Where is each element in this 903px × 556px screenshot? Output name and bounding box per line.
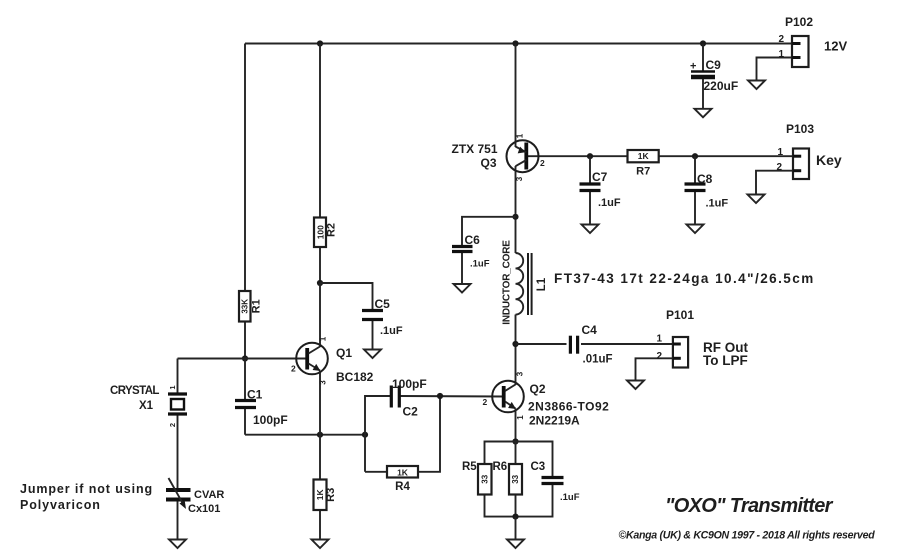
svg-text:P102: P102 — [785, 15, 813, 29]
wire: R2 top lead — [319, 44, 321, 218]
ground below C5 — [364, 350, 381, 359]
svg-text:1K: 1K — [638, 151, 650, 161]
svg-text:C6: C6 — [465, 233, 481, 247]
svg-text:2N2219A: 2N2219A — [529, 414, 580, 428]
capacitor C4 — [570, 336, 577, 354]
wire: R7 to P103 pin1 — [659, 155, 793, 157]
svg-text:2: 2 — [777, 162, 783, 173]
svg-text:1: 1 — [516, 415, 525, 420]
transistor Q3 (ZTX751 PNP) — [507, 140, 539, 172]
svg-text:.1uF: .1uF — [560, 492, 580, 503]
svg-text:ZTX 751: ZTX 751 — [452, 142, 498, 156]
wire: R5 R6 C3 top bus — [485, 442, 553, 478]
svg-text:1: 1 — [779, 49, 785, 60]
svg-text:3: 3 — [319, 380, 328, 385]
svg-text:1K: 1K — [315, 489, 325, 501]
wire: C9 to ground — [702, 77, 704, 109]
svg-text:33K: 33K — [241, 299, 250, 314]
resistor R6 — [509, 464, 522, 495]
crystal X1 — [168, 394, 187, 414]
wire: C8 top lead — [694, 156, 696, 184]
svg-text:Key: Key — [816, 152, 842, 168]
wire: C1 bottom lead — [244, 408, 246, 435]
svg-text:Q3: Q3 — [481, 156, 497, 170]
wire: crystal to CVAR — [177, 414, 179, 490]
svg-text:FT37-43 17t 22-24ga 10.4"/26.5: FT37-43 17t 22-24ga 10.4"/26.5cm — [554, 271, 815, 286]
svg-text:2: 2 — [168, 423, 177, 427]
connector P103 — [793, 149, 809, 180]
svg-text:C2: C2 — [403, 405, 419, 419]
wire: Q1 emitter lead — [319, 371, 321, 435]
wire: R4 left lead — [365, 471, 387, 473]
svg-text:2: 2 — [483, 397, 488, 407]
wire: P101 pin2 to ground — [636, 358, 674, 380]
wire: bus to ground — [515, 517, 517, 540]
wire: C5 branch — [320, 283, 373, 311]
svg-text:12V: 12V — [824, 39, 847, 54]
wire: C2 right lead / Q2 base — [401, 395, 504, 398]
svg-text:33: 33 — [511, 474, 520, 483]
svg-text:2: 2 — [657, 351, 663, 362]
wire: Q2 emitter lead — [515, 409, 517, 442]
svg-text:X1: X1 — [139, 400, 154, 412]
ground below P102 pin1 — [748, 81, 765, 90]
capacitor C5 — [362, 311, 383, 320]
inductor L1 — [516, 253, 532, 315]
junction: Q3 collector / C6 — [512, 214, 518, 220]
wire: Q3 base to R7 — [526, 155, 627, 157]
ground below R3 — [312, 540, 329, 549]
svg-text:Jumper if not using: Jumper if not using — [20, 482, 153, 496]
capacitor CVAR (variable) — [166, 478, 191, 509]
svg-text:To LPF: To LPF — [703, 353, 748, 368]
svg-text:P103: P103 — [786, 122, 814, 136]
svg-text:2: 2 — [291, 364, 296, 374]
svg-text:L1: L1 — [536, 277, 548, 291]
svg-text:100: 100 — [316, 225, 326, 239]
svg-text:P101: P101 — [666, 308, 694, 322]
ground below C9 — [695, 109, 712, 118]
wire: R3 top lead — [319, 435, 321, 480]
capacitor C6 — [452, 247, 473, 252]
svg-text:CVAR: CVAR — [194, 489, 224, 501]
wire: C4 right lead to P101 — [581, 343, 673, 345]
junction: emitter bus — [512, 438, 518, 444]
wire: CVAR to ground — [177, 500, 179, 540]
resistor R2 — [314, 218, 326, 248]
svg-text:R1: R1 — [251, 299, 263, 313]
svg-text:1: 1 — [657, 334, 663, 345]
svg-text:100pF: 100pF — [253, 413, 288, 427]
wire: bottom feedback wire — [245, 434, 365, 436]
svg-text:100pF: 100pF — [392, 377, 427, 391]
svg-text:©Kanga (UK) & KC9ON 1997 - 201: ©Kanga (UK) & KC9ON 1997 - 2018 All righ… — [619, 530, 876, 542]
wire: R6 top lead — [515, 442, 517, 465]
svg-text:R3: R3 — [325, 488, 337, 502]
junction: rail / R2 — [317, 40, 323, 46]
svg-text:CRYSTAL: CRYSTAL — [110, 385, 159, 397]
resistor R3 — [314, 480, 327, 511]
svg-text:C5: C5 — [375, 297, 391, 311]
wire: Q1 base line — [178, 358, 308, 360]
wire: R6 bottom lead — [515, 495, 517, 517]
wire: C9 top lead — [702, 44, 704, 72]
wire: crystal top lead — [177, 359, 179, 395]
ground below C6 — [454, 284, 471, 293]
wire: rail to Q3 emitter — [515, 44, 517, 148]
wire: C1 top lead — [244, 359, 246, 401]
svg-text:C4: C4 — [582, 323, 598, 337]
capacitor C8 — [685, 184, 706, 191]
junction: Q1 emitter / R3 — [317, 432, 323, 438]
svg-text:.01uF: .01uF — [583, 354, 613, 366]
wire: P103 pin2 to ground — [756, 171, 793, 195]
wire: C7 top lead — [589, 156, 591, 184]
svg-text:+: + — [690, 61, 696, 73]
wire: C6 to ground — [461, 252, 463, 285]
wire: R2 bottom lead — [319, 247, 321, 283]
svg-text:1K: 1K — [397, 468, 409, 478]
svg-text:33: 33 — [480, 474, 489, 483]
wire: R4 right lead — [418, 396, 440, 472]
capacitor C1 — [235, 401, 256, 408]
svg-text:.1uF: .1uF — [706, 198, 729, 210]
svg-text:C3: C3 — [531, 461, 546, 473]
svg-text:.1uF: .1uF — [470, 259, 490, 270]
wire: R1 to base node — [244, 322, 246, 359]
svg-text:2: 2 — [540, 158, 545, 168]
wire: C4 left lead — [516, 343, 567, 345]
svg-text:Q2: Q2 — [530, 382, 546, 396]
junction: R2 / C5 node — [317, 280, 323, 286]
ground below CVAR — [169, 540, 186, 549]
svg-text:C9: C9 — [706, 58, 722, 72]
connector P102 — [792, 36, 809, 67]
svg-text:Cx101: Cx101 — [188, 503, 220, 515]
svg-text:Q1: Q1 — [336, 346, 352, 360]
junction: rail / C9 — [700, 40, 706, 46]
ground below C8 — [687, 225, 704, 234]
svg-text:.1uF: .1uF — [380, 325, 403, 337]
svg-text:BC182: BC182 — [336, 370, 374, 384]
wire: C6 branch — [462, 217, 516, 247]
capacitor C7 — [580, 184, 601, 191]
svg-text:INDUCTOR_CORE: INDUCTOR_CORE — [502, 240, 513, 325]
junction: C8 node — [692, 153, 698, 159]
svg-text:220uF: 220uF — [704, 79, 739, 93]
junction: base node at C1 — [242, 355, 248, 361]
junction: C2-R4 left node — [362, 432, 368, 438]
wire: L1 bottom to Q2 collector — [515, 315, 517, 386]
resistor R5 — [478, 464, 492, 495]
ground below C7 — [582, 225, 599, 234]
capacitor C9 (polarized) — [691, 72, 715, 78]
junction: bottom bus / ground — [512, 514, 518, 520]
svg-text:C1: C1 — [247, 388, 263, 402]
wire: left rail down to R1 — [244, 44, 246, 292]
junction: L1 / C4 node — [512, 341, 518, 347]
resistor R1 — [239, 291, 251, 322]
capacitor C3 — [542, 478, 564, 484]
transistor Q1 (BC182 NPN) — [296, 343, 328, 375]
svg-text:C7: C7 — [592, 170, 608, 184]
svg-text:R6: R6 — [493, 461, 508, 473]
ground below R5R6C3 bus — [507, 540, 524, 549]
svg-text:3: 3 — [516, 371, 525, 376]
svg-text:1: 1 — [168, 385, 177, 389]
wire: Q1 collector lead — [319, 283, 321, 347]
resistor R7 — [628, 150, 659, 162]
capacitor C2 — [391, 386, 399, 408]
ground below P103 pin2 — [748, 195, 765, 204]
transistor Q2 (2N3866 NPN) — [492, 381, 524, 413]
svg-text:1: 1 — [319, 336, 328, 341]
wire: C2/R4 left vertical — [365, 396, 390, 472]
junction: rail / Q3 emitter branch — [512, 40, 518, 46]
svg-text:2N3866-TO92: 2N3866-TO92 — [528, 400, 609, 414]
connector P101 — [673, 337, 688, 368]
junction: C7 node — [587, 153, 593, 159]
svg-text:R7: R7 — [636, 166, 650, 178]
svg-text:1: 1 — [778, 147, 784, 158]
wire: R5 bottom lead — [485, 484, 553, 517]
svg-text:Polyvaricon: Polyvaricon — [20, 498, 101, 512]
svg-text:3: 3 — [515, 176, 524, 181]
wire: C8 to ground — [694, 191, 696, 225]
wire: R3 bottom lead — [319, 510, 321, 540]
svg-text:1: 1 — [516, 133, 525, 138]
ground below P101 pin2 — [627, 381, 644, 390]
svg-text:R4: R4 — [395, 481, 410, 493]
svg-text:C8: C8 — [697, 172, 713, 186]
svg-text:R2: R2 — [326, 223, 338, 237]
svg-text:"OXO" Transmitter: "OXO" Transmitter — [665, 495, 834, 517]
wire: C7 to ground — [589, 191, 591, 225]
resistor R4 — [387, 466, 418, 478]
junction: C2 / R4 right node — [437, 393, 443, 399]
wire: +12V top rail — [245, 43, 792, 45]
svg-text:.1uF: .1uF — [598, 197, 621, 209]
wire: C5 to ground — [372, 320, 374, 350]
svg-text:R5: R5 — [462, 461, 477, 473]
svg-text:2: 2 — [779, 34, 785, 45]
wire: Q3 collector to C6 node — [515, 166, 517, 253]
wire: P102 pin1 to ground — [757, 58, 793, 81]
